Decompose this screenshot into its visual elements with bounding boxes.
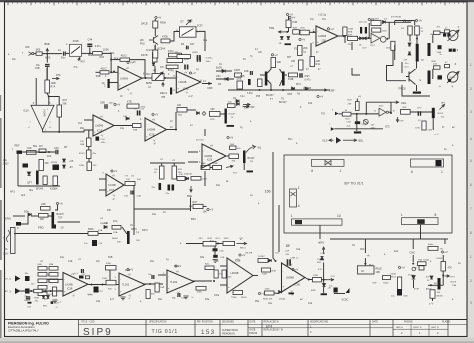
resistor R38 [39, 214, 49, 218]
svg-text:+V: +V [158, 16, 162, 20]
wire t3 emitter [416, 85, 418, 91]
diode D3 down [280, 37, 283, 40]
svg-text:+V5: +V5 [69, 160, 74, 163]
svg-text:+V: +V [358, 96, 361, 99]
svg-text:1: 1 [441, 170, 443, 174]
capacitor C36 body [94, 287, 99, 293]
input 1m tri [15, 276, 21, 282]
wire u9 in [188, 151, 198, 153]
svg-text:BYX3: BYX3 [79, 153, 85, 155]
svg-text:PLAN N: PLAN N [442, 320, 451, 323]
wire ctl run2 [410, 111, 432, 113]
svg-text:Electronic Automation: Electronic Automation [8, 325, 35, 329]
wire r2 to node [102, 53, 111, 72]
dark wedge ACDC [346, 288, 350, 293]
svg-text:+A: +A [59, 202, 63, 206]
svg-text:2: 2 [470, 279, 472, 283]
relay RL1 box [358, 266, 375, 274]
wire input a [34, 53, 36, 55]
node r97 [190, 205, 192, 207]
wire q3s up [388, 22, 390, 39]
wire node to opamp [111, 71, 117, 73]
capacitor C1 [64, 52, 66, 56]
svg-text:BU2B: BU2B [450, 77, 456, 79]
svg-text:23K: 23K [41, 202, 46, 206]
svg-text:600m: 600m [428, 244, 434, 246]
resistor R27 [445, 65, 450, 68]
wire U8 up [175, 112, 177, 130]
signal BEL arrow [343, 139, 357, 142]
wire U9 out [226, 155, 229, 157]
svg-text:DCA: DCA [321, 252, 326, 255]
svg-text:R63: R63 [100, 56, 105, 59]
wire ref bottom [18, 185, 60, 187]
signal CEL arrow [391, 101, 399, 104]
potentiometer P5 arrow [158, 72, 163, 77]
resistor R04h [342, 112, 351, 116]
resistor R50 vert [160, 166, 165, 179]
wire post u3 h [358, 37, 371, 39]
svg-text:K50BA: K50BA [50, 188, 58, 191]
connector J4 key mark [295, 220, 302, 224]
wire input run [42, 53, 62, 55]
arrow TRE out [279, 31, 288, 34]
test point REC1 [162, 83, 165, 88]
svg-text:0.47u: 0.47u [95, 45, 102, 48]
svg-text:M10M: M10M [51, 162, 57, 164]
svg-text:16V: 16V [371, 124, 375, 126]
svg-text:MAS: MAS [45, 57, 51, 60]
svg-text:12K: 12K [258, 52, 263, 54]
node N1 [46, 53, 48, 55]
wire q3 top [401, 62, 403, 73]
wire d1 [216, 70, 232, 72]
svg-text:1N: 1N [236, 101, 239, 103]
wire cap to sw [66, 52, 70, 54]
resistor R17 [289, 73, 298, 77]
wire r8 down [154, 66, 156, 74]
resistor R13 vert [271, 58, 276, 68]
wire ctl in2 [334, 128, 383, 130]
node u10 o1 [91, 284, 93, 286]
connector J1 box [312, 160, 345, 167]
wire U1B out [202, 83, 212, 85]
svg-text:K30A: K30A [424, 259, 430, 262]
twisted pair symbol [7, 230, 10, 242]
resistor R28 vert [356, 102, 360, 111]
resistor R32 [27, 151, 37, 155]
arrow r52 out [226, 165, 233, 168]
op-amp U1A LM348 [118, 66, 142, 91]
svg-text:350K: 350K [106, 263, 112, 265]
svg-text:+V: +V [172, 160, 175, 162]
svg-text:AF3: AF3 [21, 194, 26, 197]
svg-text:BYW: BYW [426, 289, 432, 291]
svg-text:+V: +V [130, 268, 134, 272]
diode D9 [364, 37, 367, 40]
wire U1A out [142, 77, 152, 79]
wire elec pair down [352, 68, 360, 75]
relay +A supply [398, 266, 405, 270]
svg-text:100n: 100n [109, 103, 115, 105]
capacitor C44 [87, 44, 92, 46]
transistor Q10 symbol [149, 36, 158, 45]
svg-text:+V: +V [295, 268, 299, 272]
resistor R56 [191, 177, 201, 181]
svg-text:+V: +V [78, 259, 81, 261]
svg-text:RIF. POSITION: RIF. POSITION [197, 321, 213, 323]
resistor R88 [49, 273, 58, 277]
svg-text:22K: 22K [291, 60, 296, 63]
left margin scan edge [0, 95, 2, 338]
resistor R24h [348, 36, 358, 40]
svg-text:+V: +V [100, 115, 104, 119]
svg-text:R3B: R3B [80, 144, 85, 146]
ground bar U1B [170, 88, 172, 95]
svg-text:1N4148: 1N4148 [184, 174, 192, 176]
potentiometer P5 wiper [155, 73, 162, 80]
svg-text:LK34B: LK34B [108, 184, 116, 187]
wire U10m down [133, 185, 135, 235]
svg-text:47K: 47K [160, 67, 165, 69]
wire to U11 [116, 284, 119, 286]
svg-text:TITLE - COD.: TITLE - COD. [81, 321, 95, 323]
wire diff bottom run [228, 89, 330, 91]
svg-text:OFT: OFT [451, 277, 456, 279]
svg-text:220K: 220K [313, 275, 319, 277]
diode D13 square [448, 79, 451, 82]
svg-text:LM34B: LM34B [318, 35, 326, 38]
svg-text:1757: 1757 [98, 291, 104, 293]
resistor R4L upper [106, 266, 117, 271]
resistor R51b [177, 177, 185, 181]
wire r77 node [322, 279, 328, 281]
svg-text:C4S: C4S [54, 147, 59, 150]
wire mid rail d2 [173, 163, 175, 166]
diode D20b [237, 103, 240, 106]
connector board outline [284, 155, 452, 233]
U14b +V supply [292, 268, 299, 272]
svg-text:1: 1 [470, 255, 472, 259]
svg-text:-: - [119, 71, 120, 75]
svg-text:0.47u: 0.47u [305, 79, 312, 82]
svg-text:100K: 100K [213, 163, 219, 165]
svg-text:R0B: R0B [293, 28, 298, 30]
resistor R76b [265, 291, 275, 295]
op-amp U13 LK348 [227, 258, 253, 295]
svg-text:BC237: BC237 [266, 94, 274, 97]
svg-text:1: 1 [291, 214, 293, 218]
svg-text:C5H: C5H [305, 75, 310, 78]
capacitor C36b dark [79, 276, 84, 279]
capacitor C22 C4B [45, 65, 50, 67]
svg-text:+V: +V [289, 263, 293, 267]
wire U14b out [305, 278, 313, 280]
resistor R58 [112, 226, 121, 230]
svg-text:TN0K: TN0K [231, 297, 237, 299]
resistor R21a [293, 30, 300, 34]
ground bar bias [289, 293, 295, 295]
svg-text:1K4B7: 1K4B7 [258, 256, 265, 258]
svg-text:153: 153 [201, 329, 216, 336]
svg-text:-: - [120, 278, 121, 282]
diode D13b square [453, 49, 456, 52]
node u11 a [149, 283, 151, 285]
wire q7 [122, 227, 127, 234]
capacitor C15 dark [438, 45, 442, 49]
svg-text:TIG 01/1: TIG 01/1 [152, 329, 179, 335]
node diff b2 [270, 89, 272, 91]
svg-text:CNC: CNC [410, 251, 416, 255]
node rb2 [430, 284, 432, 286]
svg-text:1K: 1K [163, 212, 166, 214]
svg-text:RIF: RIF [26, 45, 31, 49]
wire U13 out [253, 275, 258, 277]
svg-text:DH: DH [64, 147, 68, 149]
wire r55 right [187, 109, 196, 111]
capacitor C8 [251, 71, 253, 75]
svg-text:-: - [283, 270, 284, 274]
connector J5 box [402, 218, 439, 225]
test point A [46, 49, 49, 53]
node P5 out [164, 77, 166, 79]
wire r8 up [154, 45, 156, 53]
connector J3 key mark [291, 192, 296, 196]
wire r28 down [409, 35, 411, 42]
switch SW1 lever [71, 47, 80, 54]
svg-text:120K: 120K [382, 31, 388, 33]
svg-text:30K: 30K [232, 161, 236, 163]
capacitor C41 body [334, 288, 338, 293]
frame top ruler tick marks [8, 2, 463, 5]
svg-text:3C0F: 3C0F [73, 39, 80, 43]
wire fb right [130, 60, 145, 78]
svg-text:SIP TIG 01/1: SIP TIG 01/1 [344, 182, 364, 186]
resistor R20 vert [286, 20, 291, 28]
capacitor C3 pair [198, 57, 201, 62]
svg-text:+A: +A [418, 19, 422, 23]
svg-text:1: 1 [340, 169, 342, 173]
transistor Q2 bar [282, 72, 285, 86]
wire q10 chain2 [154, 28, 156, 36]
wire mid long run [134, 208, 191, 210]
node U3 in [313, 31, 315, 33]
svg-text:1K2: 1K2 [78, 123, 83, 125]
signal W1 arrow [246, 145, 256, 153]
svg-text:R6B: R6B [35, 298, 40, 300]
capacitor C27 [131, 191, 133, 195]
svg-text:1N: 1N [130, 225, 133, 227]
wire yd link [216, 243, 223, 245]
node post u3 [367, 37, 369, 39]
svg-text:R7A: R7A [51, 86, 56, 89]
svg-text:47K R13B: 47K R13B [391, 17, 402, 19]
svg-text:D5UA: D5UA [279, 298, 285, 301]
svg-text:20K: 20K [107, 210, 112, 212]
svg-text:PIEROBON Ing. FULVIO: PIEROBON Ing. FULVIO [8, 322, 49, 326]
resistor R19 vert [258, 79, 263, 87]
svg-text:10B: 10B [376, 271, 381, 274]
transistor Q6 bar [243, 151, 246, 164]
svg-text:50K: 50K [63, 103, 68, 106]
signal CMF arrow [206, 82, 211, 85]
wire mid rail d1 [161, 163, 163, 166]
svg-text:3.3o: 3.3o [240, 96, 245, 98]
svg-text:+V: +V [444, 250, 448, 254]
wire d2 [216, 78, 234, 80]
wire U7 stack [88, 130, 90, 138]
wire relay K2 in [170, 32, 180, 42]
svg-text:+V: +V [330, 27, 334, 31]
wire u10 in2 [47, 290, 63, 292]
node t3 top [416, 38, 418, 40]
resistor R73 vert [222, 270, 226, 278]
svg-text:R5A: R5A [348, 31, 353, 34]
wire U10m in2 [99, 189, 106, 191]
wire U3 out [338, 35, 346, 37]
wire p5 to U1B [164, 77, 176, 79]
svg-text:R6L: R6L [146, 74, 151, 76]
svg-text:+V: +V [126, 66, 130, 70]
svg-text:1N: 1N [359, 45, 362, 47]
resistor R11c vert [153, 50, 158, 58]
jack MIC2 circle [448, 72, 458, 82]
node U14b out [308, 279, 310, 281]
jack MIC1 arrow [448, 30, 460, 41]
wire ctl vplus [356, 99, 358, 102]
LED D10a up [320, 257, 323, 260]
svg-text:D04: D04 [24, 211, 29, 214]
svg-text:D6A: D6A [360, 248, 365, 251]
resistor R74b [258, 259, 268, 263]
svg-text:-: - [94, 119, 95, 123]
diode D17 [28, 213, 31, 216]
svg-text:8: 8 [435, 213, 437, 217]
capacitor C23 [56, 150, 58, 155]
node CNC [412, 263, 414, 265]
svg-text:LM34B: LM34B [204, 155, 212, 158]
resistor R48 [133, 124, 142, 128]
svg-text:47K: 47K [448, 267, 453, 270]
svg-text:CITTADELLA (PD) ITALY: CITTADELLA (PD) ITALY [8, 329, 39, 333]
svg-text:E0M: E0M [311, 290, 316, 292]
resistor R15 vert [310, 57, 315, 67]
node ref a [48, 151, 50, 153]
capacitor C31 bar [172, 185, 175, 191]
capacitor C46 bar [28, 302, 32, 304]
svg-text:100K: 100K [265, 289, 271, 291]
svg-text:3C0T: 3C0T [197, 25, 203, 28]
svg-text:B0a: B0a [88, 55, 93, 57]
wire U5 plus feed [35, 78, 37, 90]
diode D1 zener [222, 69, 225, 72]
resistor R71 [205, 266, 214, 270]
svg-text:FIRST N: FIRST N [413, 327, 422, 329]
svg-text:CMF: CMF [207, 86, 213, 90]
wire tre chain [288, 16, 290, 20]
svg-text:30K: 30K [117, 242, 121, 244]
input wedge ctl [335, 112, 339, 115]
svg-text:E1a: E1a [394, 251, 399, 253]
svg-text:+V: +V [230, 136, 234, 140]
node U5 top [48, 96, 50, 98]
wire top rail right [395, 20, 415, 22]
svg-text:D5 C34: D5 C34 [196, 140, 204, 142]
capacitor C21 sym [363, 119, 368, 124]
svg-text:3: 3 [470, 110, 472, 114]
svg-text:LM34B: LM34B [286, 277, 294, 280]
diode D10 box [434, 31, 441, 34]
wire tern h [58, 221, 81, 223]
wire elec pair up [351, 42, 353, 50]
transistor Q9 bar [225, 109, 227, 124]
capacitor C43 body [397, 289, 402, 296]
resistor R14 vert [298, 46, 303, 56]
wire jack stubs2 [432, 69, 434, 79]
resistor R63 [38, 279, 47, 283]
svg-text:100n: 100n [101, 142, 107, 144]
svg-text:R12: R12 [308, 103, 313, 105]
svg-text:PN2: PN2 [140, 43, 145, 46]
node TRE [286, 31, 288, 33]
resistor R33 [39, 149, 46, 153]
resistor R31 vert [57, 105, 62, 117]
svg-text:+A: +A [100, 217, 103, 220]
wire ctl run [351, 113, 379, 115]
svg-text:R07: R07 [40, 218, 45, 221]
resistor R89 [49, 279, 58, 283]
svg-text:1017: 1017 [379, 106, 385, 108]
node U3 out [343, 35, 345, 37]
svg-text:0u0a5: 0u0a5 [24, 300, 31, 302]
svg-text:MD5B: MD5B [437, 296, 444, 298]
transistor Q2 leads [285, 74, 287, 76]
node diff b1 [259, 89, 261, 91]
wire U7 out [114, 125, 133, 127]
svg-text:DATE: DATE [250, 320, 256, 323]
svg-text:T4A: T4A [452, 284, 457, 287]
diode D12 box [434, 66, 441, 69]
capacitor C32 body [92, 240, 97, 246]
resistor R54b [230, 146, 237, 149]
capacitor C18 dark [438, 75, 443, 79]
wire r52 link [210, 167, 213, 169]
svg-text:47K2: 47K2 [168, 50, 174, 53]
capacitor C47b dark [213, 255, 218, 258]
transistor Q5 bar [52, 212, 55, 226]
diode D21 [186, 177, 189, 180]
wire r31 connect [49, 97, 59, 106]
svg-text:C4E: C4E [68, 261, 73, 263]
svg-text:12K: 12K [80, 141, 84, 143]
svg-text:C6N: C6N [403, 296, 408, 298]
svg-text:BU2B: BU2B [450, 36, 456, 38]
svg-text:6: 6 [470, 183, 472, 187]
wire rail drop relay [364, 239, 366, 253]
signal BMF arrow [243, 103, 250, 106]
inverter U4 bubble [386, 111, 388, 113]
U12 +V supply circ [175, 264, 182, 268]
node diff b3 [282, 89, 284, 91]
svg-text:20K: 20K [303, 46, 308, 50]
diode D18 small [197, 112, 200, 115]
svg-text:BC03?: BC03? [229, 114, 236, 116]
input TERN blob [16, 222, 21, 226]
wire cnc down [412, 255, 414, 262]
diode D7 [236, 100, 239, 103]
wire rb down2 [432, 298, 434, 301]
wire tern link [21, 216, 28, 224]
